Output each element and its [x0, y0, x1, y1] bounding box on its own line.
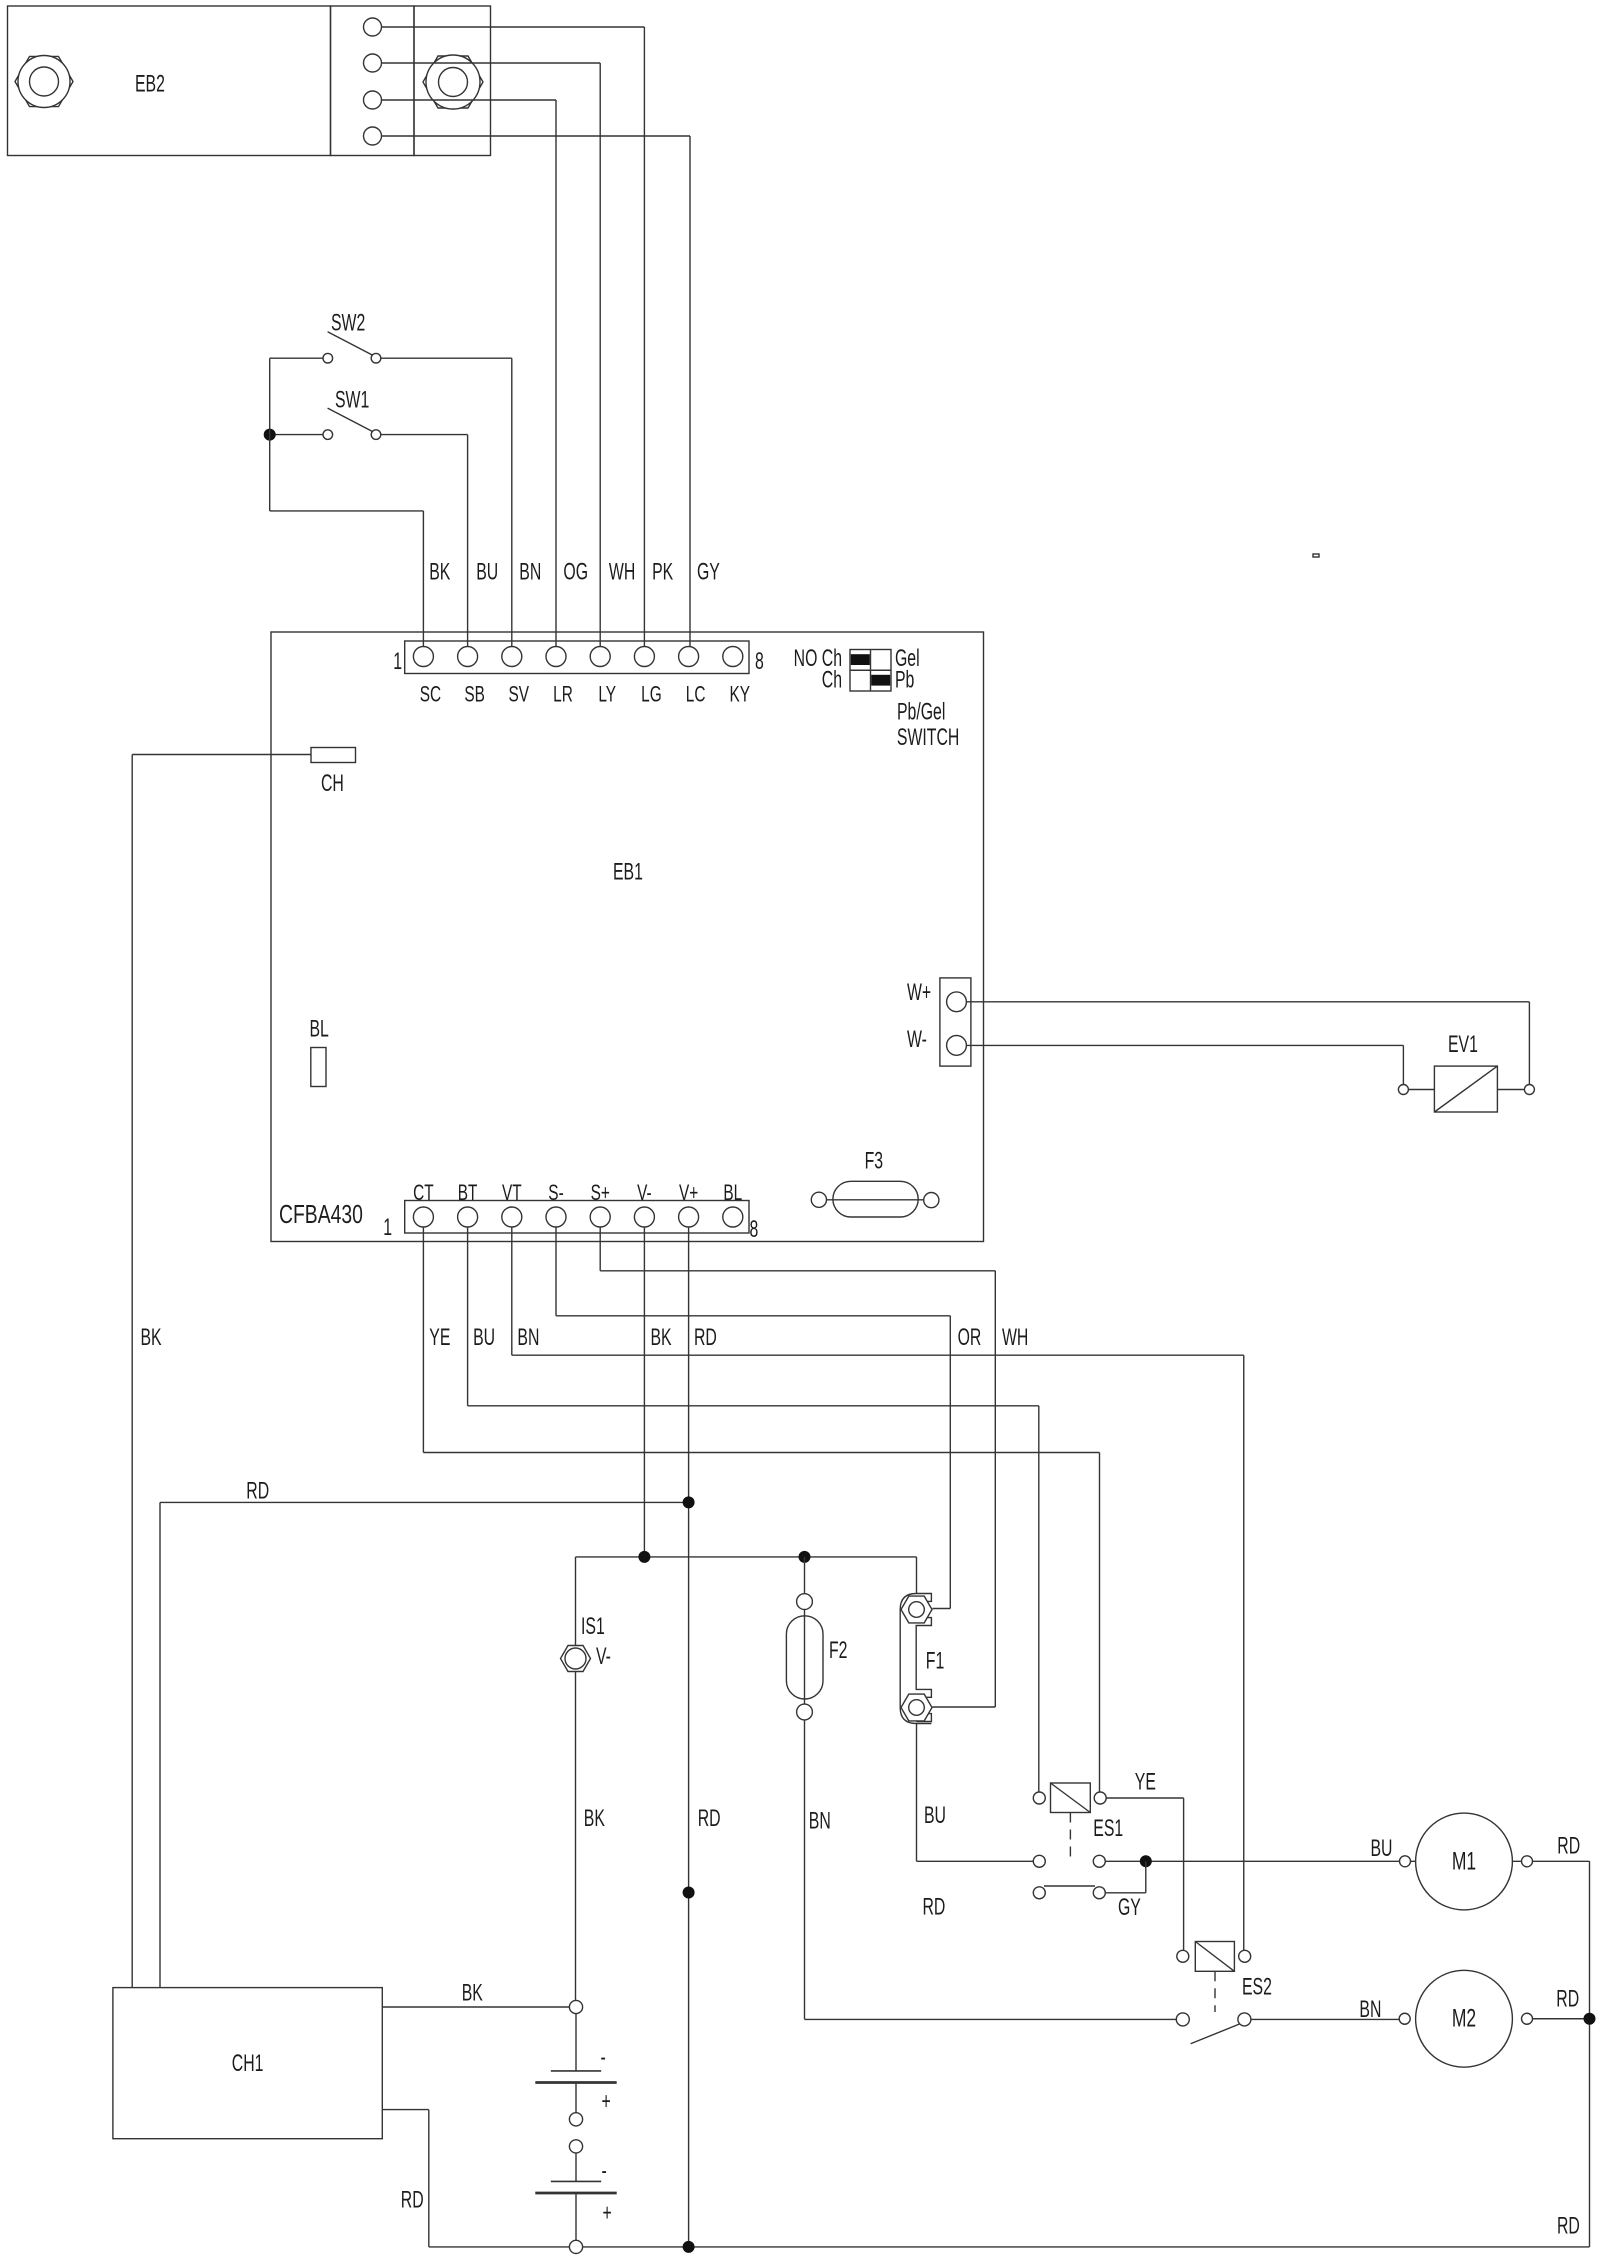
svg-text:+: + — [603, 2200, 612, 2226]
svg-text:M2: M2 — [1452, 2003, 1476, 2032]
svg-text:W-: W- — [907, 1027, 927, 1053]
switch SW1 — [323, 430, 333, 440]
EB2 pin 4 — [364, 127, 382, 145]
svg-text:-: - — [601, 2045, 606, 2071]
svg-text:LY: LY — [598, 683, 616, 707]
terminal battery mid 1 — [569, 2113, 582, 2126]
svg-text:SV: SV — [509, 683, 530, 707]
svg-text:Pb: Pb — [895, 668, 914, 694]
svg-text:GY: GY — [1118, 1895, 1141, 1921]
battery B1 — [575, 2014, 577, 2071]
ES1 contact NC row — [1033, 1887, 1045, 1899]
svg-text:YE: YE — [1135, 1769, 1156, 1795]
svg-text:BL: BL — [310, 1016, 329, 1042]
svg-text:RD: RD — [1557, 2213, 1580, 2239]
svg-text:1: 1 — [383, 1215, 392, 1241]
junction RD / V+ — [683, 1496, 695, 1508]
EB2 stud nut right — [423, 56, 483, 108]
svg-text:ES1: ES1 — [1093, 1816, 1123, 1842]
wire to M1 and right rail — [1411, 1860, 1590, 1862]
EB2 pin 2 — [364, 54, 382, 72]
svg-text:Ch: Ch — [822, 668, 842, 694]
svg-text:KY: KY — [730, 683, 751, 707]
wire SW2 left — [270, 357, 323, 359]
svg-text:8: 8 — [755, 649, 764, 675]
relay ES1 coil — [1051, 1783, 1091, 1813]
svg-text:WH: WH — [609, 559, 635, 585]
wire BT (BU) to ES1 coil left — [467, 1227, 469, 1406]
wire CT (YE) to ES1 coil right — [422, 1227, 424, 1453]
wire SW1 right to SB — [381, 434, 468, 436]
fuse F3 — [833, 1181, 918, 1217]
junction V- / BK — [638, 1551, 650, 1563]
svg-text:BL: BL — [723, 1181, 742, 1205]
wire EB2 pin4 to LC — [382, 135, 691, 137]
wire ES1 NC jumper (GY) — [1145, 1861, 1147, 1893]
wire right rail down — [1589, 1861, 1591, 2247]
svg-text:V-: V- — [637, 1181, 652, 1205]
fuse F2 — [786, 1616, 823, 1699]
terminal LY (pin 5) — [590, 647, 610, 667]
EB2 connector housing — [331, 6, 415, 156]
wire SW common down to SC — [269, 358, 271, 511]
svg-text:BN: BN — [1359, 1997, 1381, 2023]
Pb/Gel DIP switch — [850, 650, 891, 692]
svg-text:S-: S- — [548, 1181, 563, 1205]
svg-text:8: 8 — [750, 1217, 759, 1243]
block EB1 (controller) — [271, 632, 984, 1242]
svg-text:V+: V+ — [679, 1181, 698, 1205]
svg-text:BU: BU — [476, 559, 498, 585]
wire ES1 coil right (YE) to ES2 coil left — [1106, 1797, 1183, 1799]
svg-text:S+: S+ — [591, 1181, 610, 1205]
terminal LR (pin 4) — [546, 647, 566, 667]
terminal W- — [947, 1036, 967, 1056]
wire F1 bottom (BU) to ES1 contact — [916, 1723, 918, 1861]
terminal M2 right — [1522, 2013, 1533, 2024]
svg-text:ES2: ES2 — [1242, 1974, 1272, 2000]
svg-text:LR: LR — [553, 683, 573, 707]
svg-text:YE: YE — [429, 1325, 450, 1351]
fuse F1 top nut — [901, 1596, 932, 1623]
svg-text:EV1: EV1 — [1448, 1032, 1478, 1058]
svg-text:Pb/Gel: Pb/Gel — [897, 699, 945, 725]
terminal CT (pin 1) — [413, 1207, 433, 1227]
EB1 top connector — [405, 641, 749, 674]
wire EB2 pin1 to LG — [382, 26, 645, 28]
valve EV1 — [1434, 1066, 1497, 1112]
terminal V+ (pin 7) — [679, 1207, 699, 1227]
wire M2 right to rail — [1533, 2018, 1590, 2020]
EB2 pin 1 — [364, 18, 382, 36]
wire V+ (RD) down to bottom bus — [688, 1227, 690, 2247]
svg-text:SWITCH: SWITCH — [897, 725, 959, 751]
ES2 switch — [1176, 2013, 1189, 2026]
svg-text:BK: BK — [429, 559, 451, 585]
svg-text:1: 1 — [393, 649, 402, 675]
motor M2 — [1416, 1970, 1513, 2067]
block EB2 body — [8, 6, 331, 156]
wire W+ to EV1 right — [966, 1001, 1529, 1003]
svg-text:CH1: CH1 — [232, 2051, 264, 2077]
EB2 stud nut left — [15, 56, 73, 106]
wire CH1 BK to battery minus — [382, 2006, 569, 2008]
battery B2 — [575, 2153, 577, 2181]
svg-text:BU: BU — [924, 1803, 946, 1829]
svg-text:SW2: SW2 — [331, 310, 365, 336]
svg-text:SC: SC — [420, 683, 441, 707]
svg-text:F2: F2 — [829, 1638, 847, 1664]
wire W- to EV1 left — [966, 1044, 1403, 1046]
svg-text:BT: BT — [458, 1181, 478, 1205]
fuse F1 bottom nut — [901, 1694, 932, 1721]
svg-text:EB2: EB2 — [135, 71, 165, 97]
svg-text:RD: RD — [1557, 1833, 1580, 1859]
junction ES1 output — [1140, 1855, 1152, 1867]
motor M1 — [1416, 1813, 1513, 1910]
svg-text:RD: RD — [1556, 1987, 1579, 2013]
wire EB2 pin3 to LR — [382, 99, 557, 101]
svg-text:OR: OR — [958, 1325, 982, 1351]
svg-text:F3: F3 — [865, 1148, 883, 1174]
resistor CH — [311, 748, 356, 763]
svg-text:SW1: SW1 — [335, 387, 369, 413]
svg-text:RD: RD — [401, 2187, 424, 2213]
terminal S+ (pin 5) — [590, 1207, 610, 1227]
switch SW2 — [323, 353, 333, 363]
svg-text:BK: BK — [584, 1806, 606, 1832]
svg-text:BN: BN — [517, 1325, 539, 1351]
wire VT (BN) to ES2 coil right — [511, 1227, 513, 1355]
terminal SC (pin 1) — [413, 647, 433, 667]
svg-text:F1: F1 — [926, 1648, 944, 1674]
svg-text:IS1: IS1 — [581, 1614, 605, 1640]
terminal battery bottom — [569, 2240, 582, 2253]
wire CH to left rail — [132, 754, 311, 756]
svg-text:GY: GY — [697, 559, 720, 585]
svg-text:CH: CH — [321, 771, 344, 797]
EB2 end block — [414, 6, 491, 156]
wire bottom bus — [583, 2246, 1590, 2248]
svg-text:RD: RD — [698, 1806, 721, 1832]
wire S+ (WH) to F1 bottom — [599, 1227, 601, 1271]
terminal BT (pin 2) — [458, 1207, 478, 1227]
svg-text:CFBA430: CFBA430 — [279, 1199, 363, 1229]
wire IS1 down to battery — [575, 1672, 577, 2001]
svg-text:-: - — [602, 2158, 607, 2184]
svg-text:W+: W+ — [907, 980, 931, 1006]
svg-text:M1: M1 — [1452, 1846, 1476, 1875]
charger CH1 — [113, 1988, 382, 2139]
terminal KY (pin 8) — [723, 647, 743, 667]
terminal VT (pin 3) — [502, 1207, 522, 1227]
wire SW1 left — [270, 434, 323, 436]
junction M2 / right rail — [1584, 2013, 1596, 2025]
EB1 bottom connector — [405, 1201, 749, 1234]
svg-text:PK: PK — [652, 559, 674, 585]
terminal M1 right — [1522, 1856, 1533, 1867]
terminal LG (pin 6) — [634, 647, 654, 667]
svg-text:BU: BU — [473, 1325, 495, 1351]
svg-text:LG: LG — [641, 683, 662, 707]
ES1 contact NO row — [1033, 1855, 1045, 1867]
svg-text:SB: SB — [464, 683, 485, 707]
wire F2 bottom (BN) to ES2 switch — [804, 1720, 806, 2020]
svg-text:EB1: EB1 — [613, 859, 643, 885]
junction V+ mid — [683, 1887, 695, 1899]
svg-text:LC: LC — [686, 683, 706, 707]
terminal M1 left — [1400, 1856, 1411, 1867]
junction V- / F2 — [799, 1551, 811, 1563]
terminal W+ — [947, 992, 967, 1012]
terminal S- (pin 4) — [546, 1207, 566, 1227]
sensor IS1 — [561, 1646, 591, 1672]
wire BK left rail down to CH1 — [131, 755, 133, 1988]
svg-text:CT: CT — [413, 1181, 434, 1205]
EB2 pin 3 — [364, 91, 382, 109]
wire SW2 right to SV — [381, 357, 512, 359]
wire V- (BK) down — [643, 1227, 645, 1557]
svg-text:WH: WH — [1002, 1325, 1028, 1351]
svg-text:BU: BU — [1371, 1836, 1393, 1862]
terminal battery mid 2 — [569, 2140, 582, 2153]
svg-text:RD: RD — [694, 1325, 717, 1351]
terminal LC (pin 7) — [679, 647, 699, 667]
wire RD from CH1 to V+ rail — [159, 1502, 161, 1987]
terminal battery top — [569, 2000, 582, 2013]
ES2 actuator dashed link — [1214, 1971, 1216, 2012]
svg-text:RD: RD — [923, 1894, 946, 1920]
svg-text:BN: BN — [519, 559, 541, 585]
stray mark — [1313, 554, 1319, 557]
terminal BL (pin 8) — [723, 1207, 743, 1227]
junction SW common — [264, 429, 276, 441]
wire V- distribution — [576, 1556, 917, 1558]
terminal SB (pin 2) — [458, 647, 478, 667]
svg-text:+: + — [602, 2089, 611, 2115]
svg-text:RD: RD — [246, 1478, 269, 1504]
svg-text:VT: VT — [502, 1181, 522, 1205]
wire between cells — [575, 2083, 577, 2113]
terminal SV (pin 3) — [502, 647, 522, 667]
fuse F1 holder — [900, 1594, 931, 1724]
wire S- (OR) to F1 top — [555, 1227, 557, 1316]
wire ES2 to M2 — [1251, 2018, 1400, 2020]
relay ES2 coil — [1195, 1942, 1234, 1972]
svg-text:BK: BK — [651, 1325, 673, 1351]
svg-text:BK: BK — [141, 1325, 163, 1351]
component BL — [311, 1048, 326, 1087]
wire EB2 pin2 to LY — [382, 62, 601, 64]
terminal V- (pin 6) — [634, 1207, 654, 1227]
svg-text:BK: BK — [462, 1981, 484, 2007]
terminal M2 left — [1399, 2013, 1410, 2024]
wire ES1 contact to M1 — [1105, 1860, 1399, 1862]
wire F2 top — [804, 1557, 806, 1594]
svg-text:BN: BN — [809, 1809, 831, 1835]
svg-text:OG: OG — [563, 559, 588, 585]
connector W+/W- — [940, 978, 971, 1066]
ES1 actuator dashed link — [1069, 1813, 1071, 1858]
svg-text:V-: V- — [596, 1644, 611, 1670]
wire CH1 RD to bottom bus — [382, 2109, 429, 2111]
junction bottom bus / V+ — [683, 2241, 695, 2253]
